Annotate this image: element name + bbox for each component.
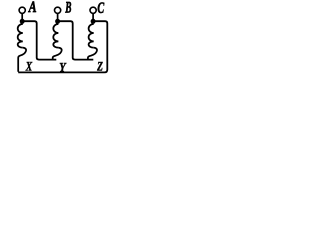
wire A stem	[21, 14, 23, 20]
node B junction dot	[55, 19, 60, 24]
wire C top, descender and bottom bus to X end of winding A	[18, 21, 107, 72]
winding B (coil)	[53, 24, 58, 48]
terminal A	[19, 7, 25, 13]
winding C end tail to connection line (Z end)	[88, 48, 97, 60]
terminal B	[55, 7, 61, 13]
wire C stem	[92, 14, 94, 20]
winding C (coil)	[89, 24, 94, 48]
terminal C	[90, 7, 96, 13]
node C junction dot	[91, 19, 96, 24]
wire B top, descender and connection to Z end of winding C	[58, 21, 94, 59]
svg-text:X: X	[25, 59, 32, 74]
winding A end tail dropping to bottom bus (X end)	[18, 48, 26, 72]
wire B stem	[57, 14, 59, 20]
winding A (coil)	[18, 24, 23, 48]
node A junction dot	[20, 19, 25, 24]
wire A top, descender and connection to Y end of winding B	[22, 21, 56, 59]
winding B end tail to connection line (Y end)	[53, 48, 62, 60]
svg-text:Z: Z	[96, 59, 103, 74]
svg-text:A: A	[28, 0, 37, 16]
svg-text:C: C	[97, 0, 104, 17]
svg-text:B: B	[65, 0, 72, 17]
